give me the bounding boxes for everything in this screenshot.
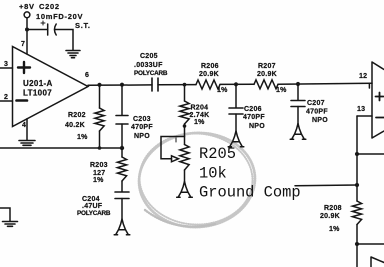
svg-text:NPO: NPO xyxy=(249,123,265,130)
wire down to C203 xyxy=(121,85,123,116)
svg-text:470PF: 470PF xyxy=(306,109,328,116)
analog ground A (R205) xyxy=(177,182,193,198)
svg-text:4: 4 xyxy=(22,122,26,129)
resistor R207 xyxy=(254,80,278,89)
svg-text:R208: R208 xyxy=(324,205,342,212)
svg-text:470PF: 470PF xyxy=(131,124,153,131)
capacitor C206 xyxy=(229,108,243,114)
plus input symbol xyxy=(18,62,30,73)
svg-text:C202: C202 xyxy=(39,2,60,11)
wire to C202 xyxy=(27,29,48,31)
svg-text:NPO: NPO xyxy=(312,117,328,124)
svg-text:1%: 1% xyxy=(329,226,340,233)
wire R202 to rail xyxy=(99,131,101,148)
highlight circle annotation around R205 xyxy=(136,129,258,231)
pot terminal 1 tick xyxy=(175,138,177,142)
svg-text:POLYCARB: POLYCARB xyxy=(134,70,168,77)
ground at pin 4 xyxy=(19,141,35,146)
resistor R203 xyxy=(121,148,123,157)
svg-text:20.9K: 20.9K xyxy=(320,213,340,220)
pin 12 stub tick xyxy=(368,83,370,88)
svg-text:3: 3 xyxy=(4,61,8,68)
svg-text:LT1007: LT1007 xyxy=(23,89,52,98)
wire C204 to A ground xyxy=(121,199,123,220)
wire +8V down to pin 7 xyxy=(26,18,28,54)
svg-text:1%: 1% xyxy=(77,134,88,141)
node bottom junction xyxy=(355,242,359,246)
svg-text:POLYCARB: POLYCARB xyxy=(77,210,111,217)
svg-text:R203: R203 xyxy=(90,162,108,169)
svg-text:+8V: +8V xyxy=(19,2,35,11)
svg-text:2.74K: 2.74K xyxy=(190,112,210,119)
pot wiper arrow xyxy=(172,156,179,162)
node C206 tap xyxy=(234,82,238,86)
wire pin 3 xyxy=(0,67,13,69)
resistor R206 xyxy=(196,80,220,89)
ground (S.T.) xyxy=(66,51,80,58)
ground rail wire (bottom left) xyxy=(0,147,122,149)
svg-text:C204: C204 xyxy=(82,196,100,203)
wire down to R204 xyxy=(184,85,186,102)
plus input symbol U2 xyxy=(376,93,384,101)
svg-text:Ground Comp: Ground Comp xyxy=(199,184,301,202)
svg-text:R205: R205 xyxy=(199,145,236,163)
wire down to C206 xyxy=(235,85,237,108)
op-amp U1 (U201-A) xyxy=(13,47,89,127)
svg-text:R204: R204 xyxy=(191,105,209,112)
wire C202 to ground xyxy=(55,30,73,51)
node R204/pot junction xyxy=(183,124,187,128)
wire down to R202 xyxy=(99,85,101,109)
svg-text:S.T.: S.T. xyxy=(75,21,91,30)
capacitor C207 xyxy=(291,101,305,107)
svg-text:127: 127 xyxy=(93,170,105,177)
minus input symbol xyxy=(17,99,28,102)
svg-text:40.2K: 40.2K xyxy=(65,122,85,129)
svg-text:12: 12 xyxy=(359,73,367,80)
wire pin 13 xyxy=(357,115,372,117)
svg-text:U201-A: U201-A xyxy=(23,79,53,88)
wire ground-comp to left xyxy=(295,184,357,187)
wire pin 4 xyxy=(26,119,28,140)
svg-text:13: 13 xyxy=(357,106,365,113)
node C203 tap xyxy=(120,83,124,87)
wire bottom right xyxy=(357,243,384,245)
wire left edge net (bottom) xyxy=(0,208,10,221)
wire net to R208 rail xyxy=(356,116,358,201)
svg-text:C205: C205 xyxy=(140,53,158,60)
wire R204 to pot xyxy=(184,124,186,145)
op-amp U3 (bottom right, partial) xyxy=(371,257,384,267)
svg-text:.47UF: .47UF xyxy=(82,203,103,210)
wire C206 to A ground xyxy=(235,114,237,132)
pot top-terminal wire (box) xyxy=(161,137,185,159)
svg-text:.0033UF: .0033UF xyxy=(134,62,163,69)
wire output net (pin 6 across page) xyxy=(88,84,152,86)
wire pot to A ground xyxy=(184,170,186,182)
svg-text:1%: 1% xyxy=(194,119,205,126)
svg-text:20.9K: 20.9K xyxy=(199,71,219,78)
+8V terminal xyxy=(24,12,30,18)
resistor R202 xyxy=(95,108,104,131)
svg-text:C207: C207 xyxy=(307,100,325,107)
wire down to C207 xyxy=(297,84,299,100)
resistor R204 xyxy=(180,101,189,124)
node C207 tap xyxy=(296,82,300,86)
minus input symbol U2 xyxy=(376,117,384,119)
svg-text:20.9K: 20.9K xyxy=(257,71,277,78)
junction R202/rail xyxy=(98,146,102,150)
junction C203/rail xyxy=(120,146,124,150)
capacitor C203 xyxy=(116,116,128,125)
svg-text:6: 6 xyxy=(85,72,89,79)
node output feedback xyxy=(355,152,359,156)
ground (left bottom) xyxy=(3,222,18,227)
svg-text:C203: C203 xyxy=(133,116,151,123)
wire C207 to A ground xyxy=(297,107,299,125)
capacitor C202 xyxy=(47,24,49,35)
svg-text:C206: C206 xyxy=(244,106,262,113)
capacitor C205 (series) xyxy=(152,78,158,91)
svg-text:2: 2 xyxy=(4,94,8,101)
svg-text:R202: R202 xyxy=(68,112,86,119)
svg-text:R207: R207 xyxy=(258,63,276,70)
svg-text:NPO: NPO xyxy=(134,133,150,140)
node R202 tap xyxy=(97,83,101,87)
svg-text:7: 7 xyxy=(21,41,25,48)
potentiometer R205 body xyxy=(180,145,189,171)
svg-text:1%: 1% xyxy=(217,87,228,94)
svg-text:R206: R206 xyxy=(201,63,219,70)
wire feedback right xyxy=(357,153,384,155)
wire pin 2 xyxy=(0,100,13,102)
resistor R208 xyxy=(352,201,361,225)
op-amp U2 (right, partial) xyxy=(372,62,384,138)
node junction at C202 tap xyxy=(25,28,29,32)
analog ground A (C204) xyxy=(114,219,130,235)
node ground-comp net xyxy=(355,183,359,187)
svg-text:470PF: 470PF xyxy=(243,114,265,121)
node R204 tap xyxy=(183,83,187,87)
svg-text:1%: 1% xyxy=(276,87,287,94)
analog ground A (C206) xyxy=(228,131,244,147)
analog ground A (C207) xyxy=(290,124,306,140)
svg-text:10mFD-20V: 10mFD-20V xyxy=(36,12,83,21)
wire C203 to rail xyxy=(121,124,123,148)
svg-text:10k: 10k xyxy=(199,165,227,183)
capacitor C204 xyxy=(115,192,129,199)
svg-text:1%: 1% xyxy=(93,177,104,184)
